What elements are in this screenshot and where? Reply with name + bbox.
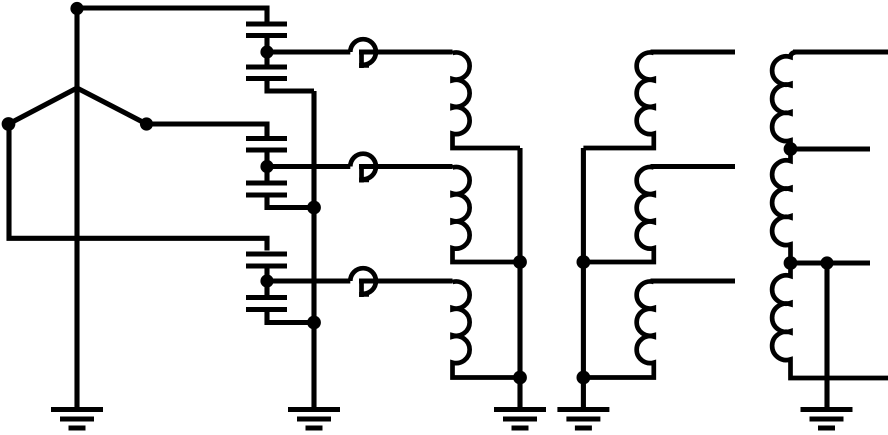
- capacitor C3 (upper of stack 2): [246, 139, 287, 151]
- winding L5 secondary phase B: [583, 167, 653, 262]
- node N7 stack3 midpoint dot: [260, 274, 273, 287]
- wire stub stack2 mid: [264, 150, 269, 186]
- wire from N3 right to capacitor stack 2 input: [147, 124, 268, 136]
- ground G2: [288, 410, 340, 429]
- capacitor C1 (upper of stack 1): [246, 24, 287, 36]
- wire diagonal left from apex to node N2: [9, 88, 78, 124]
- wire L7 top terminal to right edge: [793, 49, 888, 54]
- node N11 junction on bus B2: [577, 255, 591, 269]
- node N9 junction on bus B1: [513, 255, 527, 269]
- node N6 junction on bus B0: [307, 201, 321, 215]
- winding L3 primary phase C: [453, 282, 521, 378]
- wire stack3 bottom step to bus B0: [267, 310, 314, 323]
- wire L4 top terminal: [651, 49, 736, 54]
- capacitor C5 (upper of stack 3): [246, 254, 287, 266]
- wire N4 to probe P1: [267, 49, 350, 54]
- wire stack2 bottom step to bus B0: [267, 195, 314, 208]
- node N10 junction on bus B1: [513, 371, 527, 385]
- node N4 stack1 midpoint dot: [260, 45, 273, 58]
- wire top horizontal from N1 to capacitor stack 1 input: [77, 8, 267, 22]
- node N3 right dot: [140, 117, 153, 130]
- wire probe P3 to winding L3: [359, 278, 453, 283]
- node N12 junction on bus B2: [577, 371, 591, 385]
- wire tap 2 terminal: [791, 260, 871, 265]
- wire stack1 bottom step to bus B0: [267, 79, 314, 92]
- node N8 junction on bus B0: [307, 316, 321, 330]
- capacitor C4 (lower of stack 2): [246, 183, 287, 195]
- winding L2 primary phase B: [453, 167, 521, 262]
- capacitor C2 (lower of stack 1): [246, 67, 287, 79]
- node N1 top-left junction dot: [70, 2, 83, 15]
- wire L5 top terminal: [651, 164, 736, 169]
- wire N7 to probe P3: [267, 278, 350, 283]
- wire diagonal right from apex to node N3: [77, 88, 147, 124]
- wire bus B1 vertical: [517, 148, 522, 407]
- winding L7 tapped autotransformer: [772, 52, 888, 378]
- node N14 tap 2 on winding L7: [784, 256, 798, 270]
- wire ground stem G5: [824, 378, 829, 407]
- ground G5: [801, 410, 853, 429]
- wire probe P1 to winding L1: [359, 49, 453, 54]
- node N5 stack2 midpoint dot: [260, 160, 273, 173]
- wire L6 top terminal: [651, 278, 736, 283]
- wire bus B2 vertical: [581, 148, 586, 407]
- ground G1: [51, 410, 103, 429]
- probe P3: [350, 268, 376, 297]
- wire from N2 down and right to capacitor stack 3 input: [9, 124, 267, 251]
- winding L1 primary phase A: [453, 52, 521, 148]
- probe P1: [350, 39, 376, 68]
- ground G4: [557, 410, 609, 429]
- wire from N15 down to bottom rail: [824, 263, 829, 378]
- wire N5 to probe P2: [267, 164, 350, 169]
- node N2 left dot: [2, 117, 16, 131]
- wire tap 1 terminal: [791, 146, 871, 151]
- wire probe P2 to winding L2: [359, 164, 453, 169]
- wire bus B0 vertical to ground: [311, 91, 316, 407]
- node N13 tap 1 on winding L7: [784, 142, 798, 156]
- capacitor C6 (lower of stack 3): [246, 298, 287, 310]
- wire main left vertical from N1 down to ground: [74, 8, 79, 407]
- wire stub stack3 mid: [264, 266, 269, 300]
- ground G3: [494, 410, 546, 429]
- wire stub stack1 mid: [264, 36, 269, 65]
- probe P2: [350, 154, 376, 183]
- node N15 junction dot on tap 2 wire: [820, 256, 833, 269]
- winding L4 secondary phase A: [583, 52, 653, 148]
- winding L6 secondary phase C: [583, 282, 653, 378]
